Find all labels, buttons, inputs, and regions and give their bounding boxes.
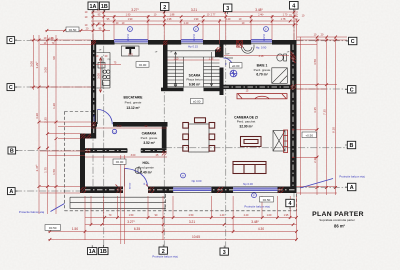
porch step side bbox=[69, 197, 71, 208]
svg-text:C: C bbox=[350, 88, 354, 94]
camara top red dim bbox=[91, 127, 167, 129]
bottom witness door pair bbox=[121, 155, 125, 244]
interior wall kitchen-stairs w1 bbox=[163, 45, 168, 92]
svg-text:3.00: 3.00 bbox=[44, 67, 48, 73]
porch step line 2 bbox=[70, 202, 166, 204]
wall bottom segment 2 bbox=[148, 187, 173, 194]
svg-text:3.21: 3.21 bbox=[189, 220, 195, 224]
wall top segment 1 bbox=[91, 40, 115, 45]
column hatch bottom x277 bbox=[278, 187, 284, 193]
bottom chain 3 ticks bbox=[49, 230, 298, 233]
dining head chair top bbox=[195, 118, 206, 123]
svg-text:BAIE 1: BAIE 1 bbox=[257, 64, 268, 68]
grid bubble 1A bottom bbox=[88, 248, 97, 255]
kitchen sink bbox=[103, 80, 110, 85]
hol red tick marks bbox=[116, 185, 149, 187]
grid bubble stems bbox=[15, 9, 349, 248]
svg-text:4: 4 bbox=[289, 201, 292, 207]
top chain 4 ticks bbox=[92, 23, 296, 26]
svg-text:HOL: HOL bbox=[143, 161, 150, 165]
svg-text:+0.50: +0.50 bbox=[305, 133, 313, 137]
left chain 2 bbox=[47, 35, 49, 214]
svg-text:±0.00: ±0.00 bbox=[116, 160, 124, 164]
svg-text:1.70: 1.70 bbox=[283, 14, 288, 17]
svg-text:F: F bbox=[195, 27, 197, 31]
bath radiator red bbox=[291, 52, 296, 64]
grid bubble 2 top bbox=[161, 3, 169, 11]
blue vertical texts top bbox=[128, 33, 266, 41]
svg-text:Proiectie balcon etaj: Proiectie balcon etaj bbox=[244, 205, 270, 209]
top chain 3 ticks bbox=[113, 20, 300, 23]
stair treads right flight bbox=[204, 63, 220, 87]
svg-text:U: U bbox=[113, 130, 115, 134]
level box bottom-right bbox=[260, 197, 274, 202]
svg-text:3: 3 bbox=[223, 250, 226, 256]
interior wall stub below left flight w4 bbox=[161, 88, 184, 92]
svg-text:1.75: 1.75 bbox=[44, 167, 48, 173]
svg-text:3.35: 3.35 bbox=[313, 107, 317, 113]
radiator living red bbox=[284, 130, 288, 153]
svg-text:Hp 0.15: Hp 0.15 bbox=[188, 45, 198, 49]
blue circle F top window1 bbox=[128, 27, 133, 32]
svg-text:7.35: 7.35 bbox=[323, 109, 327, 115]
svg-text:1.95: 1.95 bbox=[284, 214, 289, 217]
bath fan symbol bbox=[230, 70, 237, 77]
right rotated dim texts bbox=[313, 59, 336, 163]
svg-text:1.50: 1.50 bbox=[129, 214, 134, 217]
svg-text:90/210: 90/210 bbox=[194, 33, 196, 41]
wall top segment 2 bbox=[148, 40, 181, 45]
column hatch top-left corner bbox=[91, 40, 96, 45]
bottom chain 1 ticks bbox=[104, 216, 298, 219]
terrace dashed vertical center bbox=[165, 194, 167, 211]
grid bubble A left bbox=[8, 188, 16, 195]
grid line 3 vertical bbox=[225, 12, 227, 248]
svg-text:CAMERA DE ZI: CAMERA DE ZI bbox=[234, 115, 258, 119]
svg-text:86 m²: 86 m² bbox=[334, 223, 346, 228]
svg-text:F: F bbox=[253, 194, 255, 198]
svg-text:1B: 1B bbox=[101, 4, 108, 10]
svg-text:T: T bbox=[182, 174, 184, 178]
svg-text:1.10: 1.10 bbox=[174, 57, 179, 60]
svg-text:2.20: 2.20 bbox=[226, 18, 231, 21]
kitchen horizontal red dim bbox=[96, 64, 121, 66]
column hatch flue corner bbox=[216, 47, 221, 52]
tv stand bbox=[241, 137, 262, 147]
svg-text:2: 2 bbox=[163, 5, 166, 11]
left rotated dim texts chain1 bbox=[30, 56, 57, 175]
grid line A horizontal bbox=[15, 188, 347, 192]
grid line B horizontal bbox=[16, 148, 348, 151]
svg-text:6.70 m²: 6.70 m² bbox=[256, 73, 268, 77]
axis dash overlays on walls bbox=[85, 45, 296, 190]
level box bath bbox=[230, 63, 243, 68]
svg-text:3.48⁵: 3.48⁵ bbox=[251, 220, 259, 224]
svg-text:Perd. parchet: Perd. parchet bbox=[237, 120, 256, 124]
interior wall camara top w6 left bbox=[91, 122, 97, 127]
balcony projection dashed left vertical bbox=[64, 112, 66, 211]
stair landing line bbox=[168, 51, 220, 87]
svg-text:3.29⁵: 3.29⁵ bbox=[35, 61, 39, 69]
svg-text:4: 4 bbox=[292, 4, 295, 10]
wall bottom segment 4 bbox=[278, 187, 297, 194]
svg-text:Np 0.00: Np 0.00 bbox=[192, 179, 202, 183]
blue circle F top window2 bbox=[194, 27, 199, 32]
left chain short bbox=[33, 35, 35, 90]
grid bubble C right lower bbox=[348, 86, 356, 93]
camara bottom red dim bbox=[85, 156, 167, 158]
svg-text:3.50: 3.50 bbox=[313, 59, 317, 65]
blue circle living window bbox=[252, 193, 257, 198]
grid bubble 3 bottom bbox=[220, 248, 228, 255]
svg-text:Proiectie balcon etaj: Proiectie balcon etaj bbox=[19, 210, 45, 214]
svg-text:CAMARA: CAMARA bbox=[142, 132, 157, 136]
grid line 1A vertical bbox=[92, 10, 94, 187]
svg-text:F: F bbox=[129, 27, 131, 31]
bottom chain 2 ticks bbox=[90, 223, 295, 226]
svg-text:3.27⁵: 3.27⁵ bbox=[131, 8, 139, 12]
bath sink bbox=[242, 45, 255, 54]
svg-text:2.20: 2.20 bbox=[244, 214, 249, 217]
level box kitchen bbox=[136, 62, 149, 68]
window hol bottom bbox=[173, 187, 211, 193]
svg-text:F: F bbox=[265, 27, 267, 31]
right witness lines bbox=[297, 40, 348, 193]
svg-text:3.00: 3.00 bbox=[30, 61, 34, 67]
top chain 2 bbox=[91, 16, 298, 18]
wall bottom pier segment 3 bbox=[211, 187, 233, 194]
interior wall camara right w7 bbox=[162, 127, 167, 149]
svg-text:A: A bbox=[350, 185, 354, 191]
svg-text:80/210: 80/210 bbox=[94, 114, 96, 121]
kitchen upper box bbox=[98, 63, 105, 69]
kitchen vertical red dim bbox=[100, 58, 102, 92]
svg-text:3.21: 3.21 bbox=[191, 8, 197, 12]
svg-text:1.00: 1.00 bbox=[267, 214, 272, 217]
grid line 4 vertical bbox=[293, 9, 295, 199]
svg-text:8.10: 8.10 bbox=[332, 127, 336, 133]
column hatch w8 left junction bbox=[86, 148, 91, 153]
svg-text:1.90: 1.90 bbox=[128, 18, 133, 21]
svg-text:2.50: 2.50 bbox=[189, 214, 194, 217]
window bath top bbox=[251, 40, 272, 44]
bath shower bbox=[272, 68, 288, 84]
wall top segment 4 bbox=[272, 40, 297, 45]
grid bubble C left lower bbox=[7, 84, 15, 91]
svg-text:6.96 m²: 6.96 m² bbox=[189, 82, 201, 86]
svg-text:0.70: 0.70 bbox=[128, 53, 133, 56]
svg-text:Proiectie balcon etaj: Proiectie balcon etaj bbox=[339, 175, 365, 179]
grid bubble 4 bottom bbox=[286, 199, 294, 206]
bottom witness lines bbox=[85, 196, 297, 241]
column hatch left jog bbox=[81, 134, 92, 139]
wall top segment 3 bbox=[203, 40, 251, 45]
svg-text:BUCATARIE: BUCATARIE bbox=[124, 96, 144, 100]
svg-text:Perd. gresie: Perd. gresie bbox=[141, 136, 158, 140]
svg-text:2.20: 2.20 bbox=[184, 22, 189, 25]
blue leader left bbox=[51, 204, 65, 212]
interior wall bath bottom w3 bbox=[220, 85, 297, 89]
interior wall stairs-bath w2 upper bbox=[220, 45, 224, 58]
blue circle kitchen door bbox=[112, 129, 116, 133]
grid bubble 1B top bbox=[100, 2, 110, 10]
svg-text:2.46⁵: 2.46⁵ bbox=[258, 13, 264, 17]
column hatch camara corner bbox=[162, 151, 167, 156]
left chain ticks bbox=[32, 39, 58, 188]
grid bubble 4 top bbox=[290, 2, 299, 10]
svg-text:1A: 1A bbox=[90, 4, 97, 10]
grid bubble C right upper bbox=[349, 37, 357, 44]
svg-text:1A: 1A bbox=[89, 249, 96, 255]
svg-text:3.48⁵: 3.48⁵ bbox=[255, 8, 263, 12]
stair arrow right bbox=[210, 52, 213, 86]
kitchen hood T mark bbox=[126, 47, 136, 55]
svg-text:3.00: 3.00 bbox=[97, 73, 101, 79]
level box bottom-left bbox=[45, 225, 61, 231]
level box hol bbox=[113, 159, 126, 164]
svg-text:5.40 m²: 5.40 m² bbox=[140, 170, 152, 174]
svg-text:1.88: 1.88 bbox=[170, 14, 175, 17]
svg-text:2.30: 2.30 bbox=[313, 157, 317, 163]
svg-text:B: B bbox=[350, 143, 354, 149]
stair up arrow left bbox=[174, 52, 177, 86]
svg-text:2%: 2% bbox=[107, 59, 110, 61]
svg-text:B: B bbox=[10, 149, 14, 155]
svg-text:Perd. gresie: Perd. gresie bbox=[254, 68, 271, 72]
svg-text:Np 0.00: Np 0.00 bbox=[243, 182, 253, 186]
kitchen counter edge lines bbox=[97, 53, 111, 89]
top partial chain left ticks bbox=[46, 29, 105, 32]
blue leader right bbox=[300, 179, 333, 189]
right chain 1 bbox=[316, 37, 318, 195]
wall left exterior upper bbox=[91, 40, 96, 139]
column hatch left wall at w6 bbox=[91, 122, 96, 127]
stair stringers bbox=[184, 57, 204, 88]
dining table bbox=[189, 124, 210, 152]
svg-text:3.20: 3.20 bbox=[35, 113, 39, 119]
column hatch bottom pier bbox=[217, 187, 223, 193]
svg-text:Hp. 0.90: Hp. 0.90 bbox=[256, 45, 267, 49]
svg-text:10.65: 10.65 bbox=[192, 235, 200, 239]
right chain ticks bbox=[316, 36, 338, 189]
svg-text:Placa beton: Placa beton bbox=[186, 78, 203, 82]
porch step line 1 bbox=[70, 196, 166, 198]
dining chairs left bbox=[183, 123, 189, 129]
blue circle hol bbox=[181, 173, 186, 178]
interior wall stub below right flight w5 bbox=[204, 88, 220, 92]
wall left exterior lower bbox=[80, 134, 85, 190]
svg-text:≡0.50: ≡0.50 bbox=[69, 28, 77, 32]
kitchen door leaf and arc bbox=[97, 110, 99, 125]
grid bubble 1B bottom bbox=[99, 248, 108, 255]
grid bubble 3 top bbox=[224, 4, 232, 12]
svg-text:±0.00: ±0.00 bbox=[139, 63, 147, 67]
bottom chain 3 bbox=[48, 231, 297, 233]
right top connector bbox=[297, 36, 348, 38]
svg-text:Perd. gresie: Perd. gresie bbox=[125, 101, 142, 105]
svg-text:1.50: 1.50 bbox=[52, 169, 56, 175]
camara door opening line bbox=[127, 149, 141, 153]
svg-text:90/210: 90/210 bbox=[128, 33, 130, 41]
kitchen stove burners bbox=[103, 70, 106, 73]
svg-text:6.35: 6.35 bbox=[134, 227, 140, 231]
kitchen hood rect bbox=[122, 46, 140, 56]
wall left jog bbox=[80, 134, 96, 139]
svg-text:12P: 12P bbox=[226, 54, 230, 56]
svg-text:1.90: 1.90 bbox=[194, 18, 199, 21]
left chain 1 bbox=[38, 35, 40, 214]
svg-text:≥0.00: ≥0.00 bbox=[232, 64, 240, 68]
entrance door leaf and arc bbox=[123, 169, 125, 187]
left witness lines bbox=[30, 40, 91, 193]
svg-text:13.12 m²: 13.12 m² bbox=[126, 106, 140, 110]
interior wall camara bottom w8 left bbox=[85, 148, 127, 153]
dining chairs right bbox=[209, 123, 215, 129]
interior wall stairs-bath w2 lower bbox=[220, 68, 224, 96]
bath red dim line bbox=[224, 55, 289, 57]
grid bubble 1A top bbox=[88, 2, 98, 10]
stair treads left flight bbox=[168, 63, 184, 87]
niche fireplace red bbox=[237, 94, 287, 99]
svg-text:≡0.50: ≡0.50 bbox=[49, 226, 57, 230]
bottom chain 2 bbox=[85, 224, 297, 226]
interior wall camara bottom w8 right bbox=[141, 148, 167, 153]
svg-text:≡0.50: ≡0.50 bbox=[263, 198, 271, 202]
svg-text:±0.00: ±0.00 bbox=[193, 100, 201, 104]
grid line 1B vertical bbox=[103, 10, 105, 248]
bottom chain 4 ticks bbox=[49, 238, 298, 241]
svg-text:1.90: 1.90 bbox=[126, 14, 131, 17]
stair flue block bbox=[215, 50, 223, 58]
blue circle F top window3 bbox=[264, 27, 269, 32]
svg-text:3.20: 3.20 bbox=[117, 125, 122, 128]
grid line C2 horizontal bbox=[15, 87, 348, 89]
svg-text:1.20: 1.20 bbox=[52, 103, 56, 109]
grid bubble A right bbox=[348, 183, 356, 190]
right chain 2 bbox=[326, 37, 328, 195]
balcony projection dashed left top bbox=[65, 111, 92, 113]
window living bottom bbox=[233, 187, 277, 193]
top witness lines bbox=[93, 11, 297, 44]
bottom chain 1 bbox=[85, 217, 297, 219]
svg-text:3.27⁵: 3.27⁵ bbox=[127, 220, 135, 224]
svg-text:3: 3 bbox=[226, 6, 229, 12]
svg-text:A: A bbox=[9, 189, 13, 195]
svg-text:1.50: 1.50 bbox=[72, 227, 78, 231]
level box scara bbox=[191, 98, 204, 103]
bottom chain 4 bbox=[48, 239, 297, 241]
right red window marks bbox=[292, 130, 295, 158]
wall right exterior bbox=[290, 40, 296, 193]
right chain 3 bbox=[335, 37, 337, 195]
svg-text:80/210: 80/210 bbox=[130, 182, 132, 189]
svg-text:1.16: 1.16 bbox=[209, 57, 214, 60]
column hatch top wall x240 bbox=[237, 41, 243, 48]
right chain 0 hugging wall bbox=[300, 37, 302, 195]
grid bubble 2 bottom bbox=[159, 247, 167, 254]
bath toilet bbox=[284, 54, 287, 61]
stair red dim line bbox=[168, 59, 220, 61]
bath door leaf and arc bbox=[224, 57, 234, 59]
svg-text:3.52 m²: 3.52 m² bbox=[143, 141, 155, 145]
grid bubble B left bbox=[8, 147, 16, 154]
svg-text:C: C bbox=[351, 39, 355, 45]
svg-text:1.98: 1.98 bbox=[167, 18, 172, 21]
grid bubble C left upper bbox=[7, 37, 15, 44]
top chain 2 ticks bbox=[92, 15, 296, 18]
column hatch bottom door jamb bbox=[117, 187, 123, 193]
svg-text:Suprafata construita parter: Suprafata construita parter bbox=[319, 218, 355, 222]
svg-text:Perd gresie: Perd gresie bbox=[138, 166, 154, 170]
balcony projection dashed bottom long bbox=[65, 210, 297, 212]
interior wall camara top w6 right bbox=[113, 122, 168, 127]
terrace dashed vertical right bbox=[296, 194, 298, 211]
level box top-left bbox=[66, 27, 79, 32]
cabinet with X bbox=[273, 131, 285, 152]
svg-text:2.77: 2.77 bbox=[211, 14, 216, 17]
svg-text:4.30: 4.30 bbox=[258, 227, 264, 231]
top chain 1 ticks bbox=[92, 11, 296, 14]
level box right bbox=[302, 132, 317, 138]
porch step line 3 bbox=[70, 207, 166, 209]
wall bottom segment 1 bbox=[80, 187, 123, 194]
svg-text:2.47⁵: 2.47⁵ bbox=[35, 164, 39, 172]
svg-text:1B: 1B bbox=[100, 249, 107, 255]
column hatch right wall at w3 bbox=[291, 85, 297, 90]
top chain 3 bbox=[91, 20, 298, 22]
column hatch bottom x148 bbox=[149, 187, 155, 193]
svg-text:1.78: 1.78 bbox=[281, 18, 286, 21]
left chain 3 bbox=[55, 35, 57, 214]
grid line C1 horizontal bbox=[15, 39, 349, 42]
top partial chain left bbox=[45, 30, 110, 32]
top chain 4 bbox=[91, 24, 298, 26]
svg-text:Proiectie balcon etaj: Proiectie balcon etaj bbox=[152, 255, 178, 259]
window kitchen top bbox=[114, 40, 148, 44]
svg-text:32.90 m²: 32.90 m² bbox=[239, 124, 253, 128]
grid line 2 vertical bbox=[163, 11, 165, 248]
grid bubble B right bbox=[347, 141, 355, 148]
svg-text:90/210: 90/210 bbox=[264, 33, 266, 41]
column hatch top wall at axis2 bbox=[163, 41, 168, 46]
column hatch bottom-left corner bbox=[81, 187, 87, 193]
window stairs top bbox=[181, 40, 203, 44]
svg-text:3.00: 3.00 bbox=[131, 154, 136, 157]
svg-text:C: C bbox=[9, 85, 13, 91]
svg-text:C: C bbox=[9, 38, 13, 44]
svg-text:90: 90 bbox=[52, 56, 56, 60]
sofa bbox=[233, 162, 266, 174]
svg-text:1.40: 1.40 bbox=[220, 214, 225, 217]
top chain 1 bbox=[91, 11, 298, 13]
